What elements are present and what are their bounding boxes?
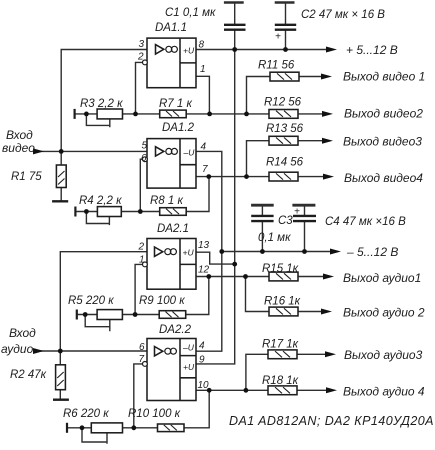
wire DA1.2 pin6 to R4 junction: [140, 159, 142, 211]
resistor R12 body: [269, 110, 298, 119]
svg-text:Выход аудио 2: Выход аудио 2: [343, 306, 425, 320]
svg-text:4: 4: [201, 142, 207, 153]
svg-text:+: +: [275, 32, 281, 43]
svg-text:R3 2,2 к: R3 2,2 к: [80, 98, 123, 110]
svg-text:+: +: [294, 207, 300, 218]
resistor R13 body: [269, 136, 298, 145]
svg-text:– 5...12 В: – 5...12 В: [346, 245, 398, 259]
ground bar of R1: [52, 200, 68, 202]
svg-text:7: 7: [139, 354, 145, 365]
wire R5/R9 row: [77, 314, 186, 316]
wire DA1.1 pin2 to R3 junction: [136, 62, 143, 114]
svg-text:С4 47 мк ×16 В: С4 47 мк ×16 В: [325, 216, 406, 228]
op-amp DA2.1: [147, 239, 196, 290]
resistor R9 body: [159, 311, 186, 319]
arrowheads: [33, 47, 341, 394]
wire R1 leads: [60, 151, 62, 200]
svg-text:DA1.2: DA1.2: [162, 122, 195, 134]
svg-text:Выход видео 1: Выход видео 1: [343, 70, 425, 84]
svg-text:R17 1к: R17 1к: [262, 339, 299, 351]
wire DA2.1 pin12 output row to R15: [196, 276, 328, 278]
wire +U bus C1 down to DA2.2 pin9: [196, 50, 235, 364]
trimmer R5 body: [97, 310, 122, 320]
svg-text:2: 2: [137, 52, 144, 63]
ground bar of R5: [76, 310, 78, 320]
svg-text:R18 1к: R18 1к: [262, 375, 299, 387]
wire DA1.2 pin4 -U bus down to DA2.2 pin4: [196, 151, 222, 351]
svg-text:R7 1 к: R7 1 к: [159, 98, 192, 110]
svg-text:0,1 мк: 0,1 мк: [258, 232, 291, 244]
wire R17 leg and row: [246, 354, 330, 390]
resistor R7 body: [160, 110, 187, 118]
capacitor C3 plates: [251, 216, 273, 221]
wire R2 leads: [59, 351, 61, 399]
svg-text:1: 1: [200, 64, 206, 75]
op-amp DA1.2 inverting input circle pin6: [143, 157, 148, 162]
op-amp DA1.1 inverting input circle pin2: [143, 60, 148, 65]
wire DA2.1 pin1 to R5 junction: [135, 264, 142, 314]
trimmer R4 body: [97, 207, 121, 217]
resistor R8 body: [160, 208, 187, 216]
op-amp DA2.2: [147, 339, 196, 401]
op-amp DA1.2: [147, 139, 196, 189]
svg-text:Выход видео4: Выход видео4: [344, 171, 423, 185]
svg-text:R14 56: R14 56: [266, 157, 304, 169]
wire R3/R7/R12 row: [75, 113, 326, 115]
wire R6 trimmer tap link: [82, 428, 107, 443]
resistor R16 body: [269, 307, 298, 316]
svg-text:1: 1: [139, 255, 145, 266]
svg-text:5: 5: [142, 141, 148, 152]
svg-text:R6 220 к: R6 220 к: [63, 408, 109, 420]
capacitor C4 plates: [293, 216, 316, 221]
svg-text:DA1 AD812AN; DA2 КР140УД20А: DA1 AD812AN; DA2 КР140УД20А: [229, 414, 434, 428]
svg-text:Выход аудио3: Выход аудио3: [344, 348, 423, 362]
svg-text:+U: +U: [183, 362, 195, 372]
svg-text:Выход аудио 4: Выход аудио 4: [343, 385, 425, 399]
wire video input riser to DA1.1 pin3: [61, 50, 147, 152]
svg-text:R12 56: R12 56: [264, 97, 302, 109]
svg-text:2: 2: [138, 242, 145, 253]
svg-text:R1 75: R1 75: [11, 171, 42, 183]
svg-text:–U: –U: [183, 147, 196, 157]
op-amp DA2.1 inverting input circle pin1: [143, 262, 148, 267]
capacitor C3 lead and chassis bar: [261, 207, 263, 252]
svg-text:4: 4: [199, 341, 205, 352]
wire R4/R8 row: [75, 211, 185, 213]
svg-text:13: 13: [198, 240, 210, 251]
trimmer R3 body: [97, 109, 122, 119]
svg-text:6: 6: [141, 153, 147, 164]
svg-text:+ 5...12 В: + 5...12 В: [346, 43, 398, 57]
svg-text:3: 3: [139, 39, 145, 50]
svg-text:–U: –U: [182, 343, 195, 353]
op-amp DA2.2 inverting input circle pin7: [143, 362, 148, 367]
svg-text:Вход: Вход: [6, 128, 33, 142]
svg-text:R10 100 к: R10 100 к: [128, 408, 181, 420]
resistor R2 body: [56, 365, 66, 390]
wire R4 trimmer tap link: [86, 212, 109, 225]
capacitor C4 lead and chassis bar: [304, 207, 306, 252]
svg-text:R4 2,2 к: R4 2,2 к: [79, 195, 122, 207]
resistor R1 body: [56, 165, 66, 188]
wire DA1.2 pin7 output row to R14: [196, 176, 328, 178]
svg-text:Вход: Вход: [9, 326, 36, 340]
svg-text:аудио: аудио: [1, 342, 34, 356]
svg-text:R13 56: R13 56: [266, 123, 304, 135]
trimmer R6 body: [91, 423, 122, 433]
svg-text:R9 100 к: R9 100 к: [139, 295, 185, 307]
resistor R14 body: [269, 172, 298, 181]
svg-text:9: 9: [199, 355, 205, 366]
resistor R11 body: [270, 72, 299, 81]
svg-text:10: 10: [198, 380, 210, 391]
wire DA1.1 pin1 output jog: [196, 76, 209, 114]
svg-text:DA2.2: DA2.2: [159, 324, 192, 336]
svg-text:С3: С3: [278, 215, 293, 227]
wire R13 leg and row: [247, 141, 328, 177]
svg-text:+U: +U: [183, 248, 195, 258]
capacitor C1 lead and chassis bar: [234, 4, 236, 50]
capacitor C2 lead and chassis bar: [285, 4, 287, 50]
svg-text:R2 47к: R2 47к: [10, 369, 47, 381]
svg-text:Выход видео2: Выход видео2: [344, 107, 423, 121]
wire audio input line: [34, 350, 147, 352]
op-amp DA1.1: [147, 38, 196, 88]
svg-text:Выход видео3: Выход видео3: [343, 135, 422, 149]
ground bar of R3: [73, 109, 75, 119]
svg-text:R15 1к: R15 1к: [262, 263, 299, 275]
wire R16 leg and row: [246, 277, 327, 312]
svg-text:С2 47 мк × 16 В: С2 47 мк × 16 В: [301, 9, 385, 21]
svg-text:видео: видео: [2, 141, 35, 155]
wire R3 trimmer tap link: [86, 114, 109, 127]
svg-text:Выход аудио1: Выход аудио1: [343, 271, 421, 285]
resistor R15 body: [269, 272, 298, 281]
capacitor C1 plates: [224, 25, 246, 30]
wire -U rail: [222, 251, 335, 253]
svg-text:8: 8: [199, 40, 205, 51]
capacitor C2 plates: [275, 25, 296, 30]
wire DA2.2 pin10 output row to R18: [196, 389, 330, 391]
wire +U rail from DA1.1 pin8: [196, 49, 331, 51]
wire R11 leg and row: [247, 77, 327, 114]
ground bar of R4: [74, 207, 76, 217]
wire video input line: [34, 150, 147, 152]
wire R9 right lead up to pin12 node: [186, 277, 209, 315]
svg-text:С1 0,1 мк: С1 0,1 мк: [165, 7, 216, 19]
wire R8 right lead up to pin7 node: [186, 177, 210, 212]
wire DA2.1 pin13 +U jog to bus: [196, 252, 235, 264]
svg-text:DA2.1: DA2.1: [157, 223, 189, 235]
svg-text:R16 1к: R16 1к: [264, 296, 301, 308]
svg-text:7: 7: [202, 164, 208, 175]
svg-text:12: 12: [198, 265, 210, 276]
svg-text:DA1.1: DA1.1: [155, 22, 187, 34]
wire R6/R10 row: [67, 427, 158, 429]
wire audio input riser to DA2.1 pin2: [60, 252, 147, 351]
wire R10 right lead up to pin10 node: [184, 390, 210, 428]
svg-text:+U: +U: [183, 45, 195, 55]
resistor R17 body: [268, 350, 297, 359]
ground bar of R2: [53, 399, 69, 401]
svg-text:6: 6: [139, 342, 145, 353]
wire R5 trimmer tap link: [85, 315, 110, 331]
svg-text:R8 1 к: R8 1 к: [150, 195, 183, 207]
resistor R10 body: [158, 424, 185, 432]
ground bar of R6: [66, 423, 68, 433]
svg-text:R5 220 к: R5 220 к: [68, 295, 114, 307]
wire DA2.2 pin7 to R6 junction: [134, 364, 143, 428]
svg-text:R11 56: R11 56: [258, 60, 295, 72]
resistor R18 body: [268, 386, 297, 395]
